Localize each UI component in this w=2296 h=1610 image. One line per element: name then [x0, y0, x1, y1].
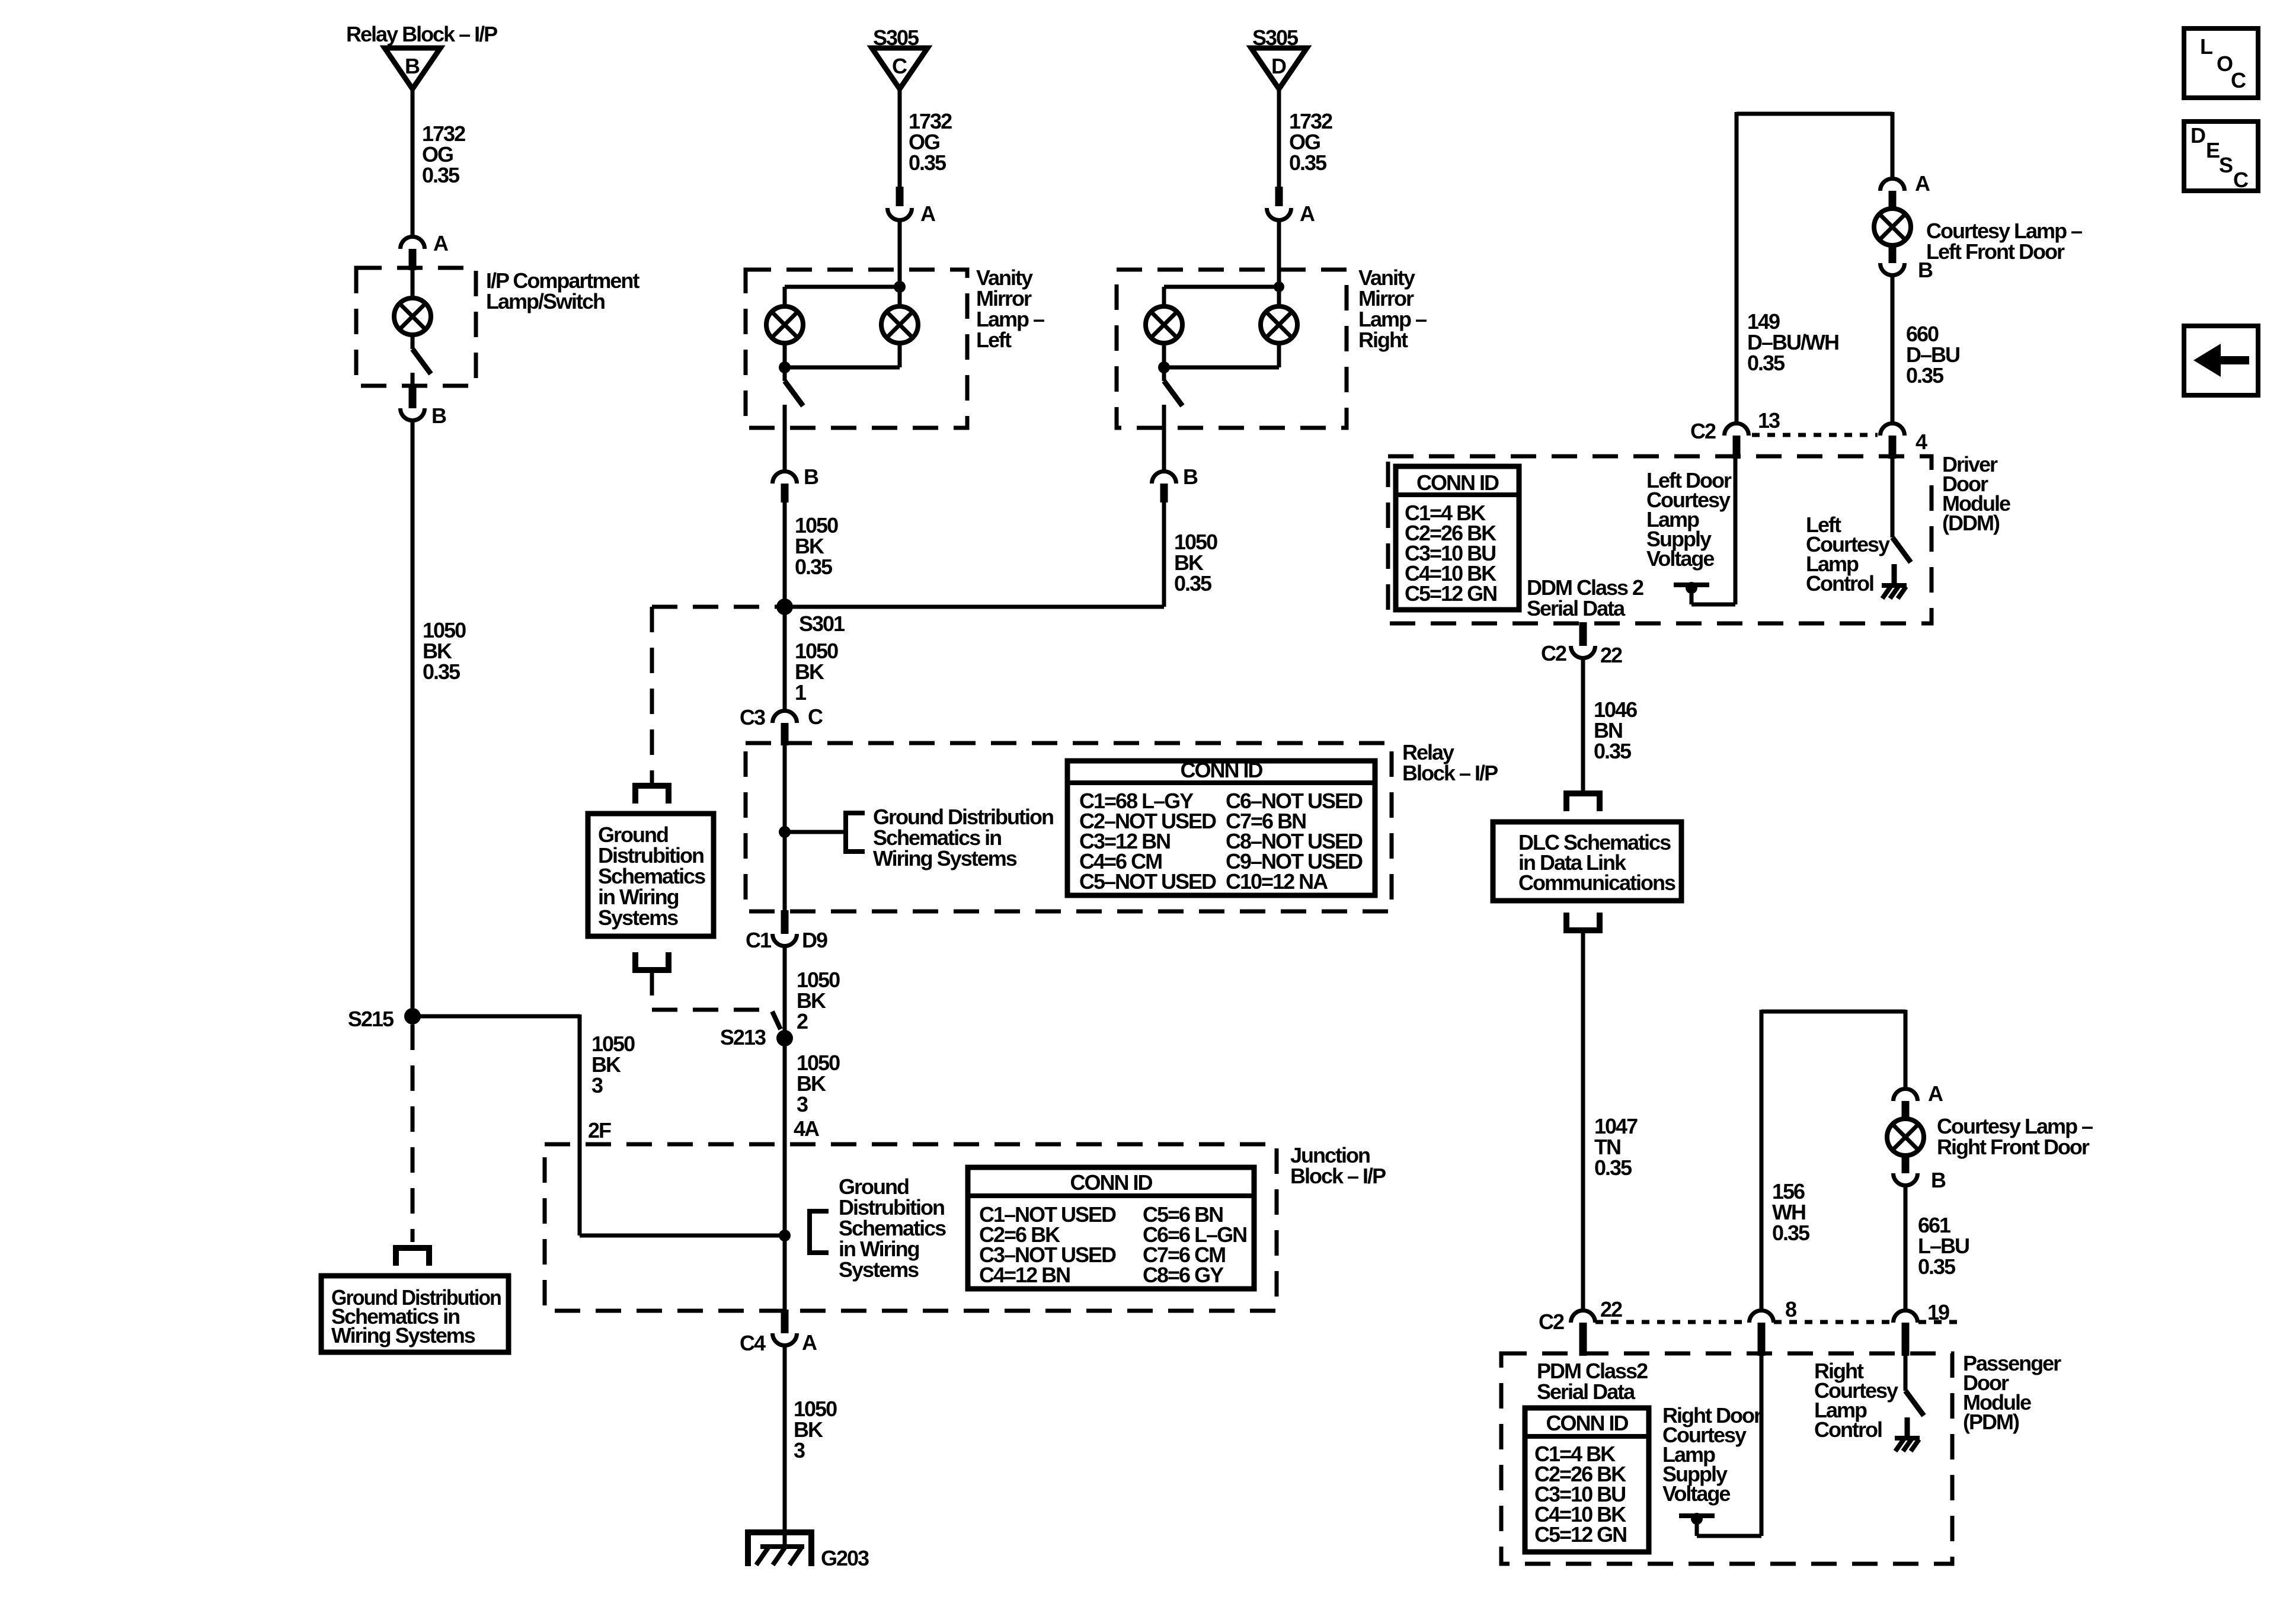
junction node in right vanity box [1274, 281, 1284, 292]
svg-text:Control: Control [1806, 571, 1873, 596]
PDM switch from pin 19 [1904, 1355, 1908, 1391]
connector B out of I/P box [409, 385, 417, 408]
svg-text:C3: C3 [740, 705, 765, 729]
wire 1050 BK 3 down to G203 [783, 1346, 787, 1548]
splice S301 [776, 598, 793, 615]
svg-text:Lamp/Switch: Lamp/Switch [486, 289, 605, 313]
svg-text:S215: S215 [348, 1007, 394, 1031]
svg-text:Left: Left [976, 328, 1012, 352]
svg-text:C2: C2 [1539, 1310, 1564, 1334]
switch node dot [779, 361, 791, 373]
svg-text:S: S [2219, 153, 2233, 177]
svg-text:S301: S301 [799, 612, 845, 636]
svg-text:Wiring Systems: Wiring Systems [331, 1323, 475, 1347]
svg-text:3: 3 [794, 1438, 805, 1462]
svg-text:(DDM): (DDM) [1942, 511, 2000, 535]
svg-text:0.35: 0.35 [422, 163, 460, 187]
ground bus junction dot in junction block [779, 1230, 791, 1241]
wire 1050 BK to S301 [783, 502, 787, 607]
svg-text:G203: G203 [821, 1546, 869, 1570]
wire lamp2 down to bottom bus (right box) [1277, 343, 1281, 367]
connector C3 pin C into Relay Block [773, 710, 797, 723]
svg-text:1: 1 [795, 680, 807, 705]
DDM pin 4 connector [1881, 423, 1905, 436]
connector A into I/P Compartment Lamp/Switch [401, 237, 425, 249]
connector staple above Ground Distribution box [396, 1248, 429, 1266]
Ground Distrubition Schematics box (middle) [588, 814, 714, 936]
I/P Compartment Lamp/Switch dashed box [356, 268, 476, 386]
splice triangle C (S305) [872, 48, 928, 89]
courtesy lamp right front door assembly [1894, 1089, 1918, 1101]
wire S301 down to C3 [783, 607, 787, 709]
svg-text:C: C [808, 705, 823, 729]
connector triangle B (Relay Block - I/P) [385, 48, 440, 89]
svg-text:Systems: Systems [598, 905, 678, 930]
svg-text:0.35: 0.35 [795, 555, 833, 579]
Vanity Mirror Lamp - Left dashed box [746, 270, 967, 428]
switch node dot (right box) [1158, 361, 1170, 373]
svg-text:2: 2 [797, 1009, 808, 1033]
svg-text:A: A [1928, 1081, 1943, 1106]
svg-text:Block – I/P: Block – I/P [1290, 1164, 1386, 1188]
Vanity Mirror Lamp - Right dashed box [1117, 270, 1347, 428]
svg-text:O: O [2217, 52, 2233, 76]
LOC legend box [2184, 28, 2258, 98]
wire pin 8 into PDM internals [1760, 1355, 1764, 1536]
supply voltage terminal (PDM) [1679, 1513, 1715, 1518]
wire 1046 BN down to DLC ref [1581, 658, 1585, 794]
dashed ground-distribution link from S215 down [411, 1025, 415, 1242]
Junction Block - I/P dashed box [545, 1144, 1277, 1311]
wire from switch through box edge [783, 405, 787, 470]
wire lamp1 to switch node [783, 343, 787, 367]
DDM switch from pin 4 [1891, 457, 1895, 537]
wire from connector A into vanity box [898, 220, 902, 287]
svg-text:D: D [1271, 54, 1286, 78]
svg-text:B: B [405, 54, 420, 78]
wire top loop (right courtesy lamp) [1761, 1010, 1905, 1014]
wire 1050 BK down to S301 bus [1162, 502, 1166, 607]
svg-text:D9: D9 [802, 928, 827, 952]
svg-text:A: A [802, 1330, 817, 1355]
wire from S215 right [411, 1014, 580, 1019]
svg-text:CONN ID: CONN ID [1416, 470, 1499, 495]
wire S213 down into Junction Block [783, 1038, 787, 1144]
svg-text:CONN ID: CONN ID [1181, 758, 1263, 782]
svg-text:E: E [2206, 138, 2220, 162]
Driver Door Module dashed box [1388, 456, 1932, 623]
wire from switch to box edge [411, 373, 415, 386]
svg-text:A: A [433, 231, 449, 255]
DDM pin 13 connector [1725, 423, 1749, 436]
svg-text:(PDM): (PDM) [1963, 1410, 2019, 1434]
svg-text:Serial Data: Serial Data [1527, 596, 1626, 620]
splice S213 [776, 1030, 793, 1046]
svg-text:C4=12 BN: C4=12 BN [979, 1263, 1070, 1287]
connector staple below Ground Distrubition box [635, 952, 669, 970]
wire 1732 OG from D down [1277, 89, 1281, 188]
svg-text:0.35: 0.35 [423, 660, 461, 684]
dashed link down to S213 [650, 970, 654, 1010]
svg-text:C5=12 GN: C5=12 GN [1405, 581, 1496, 606]
svg-text:C2: C2 [1690, 419, 1716, 443]
svg-text:C10=12 NA: C10=12 NA [1226, 869, 1328, 894]
PDM pin 22 connector [1571, 1311, 1595, 1323]
connector staple below DLC box [1566, 913, 1600, 930]
DDM internal ground [1882, 583, 1907, 588]
wire 1050 BK 2 down to S213 [783, 946, 787, 1039]
wire to left branch (right box) [1164, 285, 1279, 289]
dashed link from S301 bus to ground distribution ref [652, 605, 785, 609]
svg-text:Systems: Systems [839, 1257, 919, 1282]
ground bus junction dot in relay block [779, 826, 791, 838]
wire lamp2 branch down (right box) [1277, 287, 1281, 306]
svg-text:B: B [1931, 1168, 1946, 1192]
bracket (ground distribution ref, relay block) [846, 813, 865, 852]
svg-text:A: A [1300, 201, 1315, 226]
svg-text:CONN ID: CONN ID [1070, 1170, 1153, 1195]
svg-text:B: B [1183, 465, 1198, 489]
vanity right lamp 1 [1146, 306, 1182, 343]
switch stem [783, 367, 787, 381]
bottom bus wire in right vanity box [1164, 366, 1279, 370]
svg-text:S213: S213 [720, 1025, 766, 1049]
svg-text:C1: C1 [746, 928, 772, 952]
CONN ID table (PDM) [1525, 1408, 1649, 1552]
svg-text:C5=12 GN: C5=12 GN [1534, 1522, 1626, 1547]
splice triangle D (S305) [1251, 48, 1307, 89]
connector B below left vanity box [773, 472, 797, 484]
svg-text:A: A [920, 201, 936, 226]
wire 1050 BK from B down to S215 [411, 421, 415, 1017]
svg-text:B: B [431, 404, 446, 428]
wire from lamp to switch [411, 335, 415, 349]
Relay Block - I/P dashed box [746, 743, 1392, 911]
svg-text:Voltage: Voltage [1646, 546, 1714, 571]
svg-text:0.35: 0.35 [1289, 151, 1327, 175]
connector B below right vanity box [1152, 472, 1176, 484]
PDM internal ground [1895, 1436, 1920, 1441]
svg-text:C5–NOT USED: C5–NOT USED [1079, 869, 1216, 894]
Ground Distribution Schematics box (bottom left) [321, 1276, 509, 1352]
wire top loop (left courtesy lamp) [1737, 112, 1892, 116]
DESC legend box [2184, 121, 2258, 191]
svg-text:C2: C2 [1541, 641, 1566, 665]
wire inside junction block from 2F to ground bus [580, 1234, 785, 1238]
svg-text:8: 8 [1785, 1297, 1796, 1321]
svg-text:0.35: 0.35 [1594, 739, 1632, 763]
svg-text:C: C [2233, 168, 2249, 192]
svg-text:0.35: 0.35 [1594, 1156, 1632, 1180]
svg-text:L: L [2200, 34, 2212, 59]
svg-text:Block – I/P: Block – I/P [1402, 761, 1498, 785]
wire to left branch [785, 285, 900, 289]
Passenger Door Module dashed box [1501, 1353, 1952, 1564]
wire inside I/P box to lamp [411, 268, 415, 298]
junction node in left vanity box [894, 281, 906, 293]
svg-text:Voltage: Voltage [1662, 1481, 1730, 1506]
wire through junction block [783, 1144, 787, 1311]
wire down to vanity lamp 1 [783, 287, 787, 306]
CONN ID table (Relay Block) [1067, 761, 1375, 895]
connector staple above Ground Distrubition box (middle) [635, 786, 669, 804]
switch blade (I/P compartment switch) [412, 349, 431, 374]
pin face dotted line (DDM) [1752, 433, 1878, 437]
svg-text:Control: Control [1814, 1417, 1882, 1442]
wire from switch through box edge (right) [1162, 405, 1166, 470]
svg-text:4: 4 [1916, 430, 1927, 454]
bottom bus wire in left vanity box [785, 366, 900, 370]
wire 1047 TN down to PDM [1581, 930, 1585, 1309]
wire pin 13 into DDM internals [1734, 457, 1738, 604]
in-line connector A (right vanity feed) [1275, 187, 1283, 206]
svg-text:0.35: 0.35 [1918, 1254, 1956, 1279]
svg-text:Wiring Systems: Wiring Systems [873, 846, 1017, 870]
wire down to lamp 1 (right box) [1162, 287, 1166, 306]
svg-text:22: 22 [1600, 1297, 1622, 1321]
svg-text:C: C [2231, 68, 2246, 92]
ground G203 symbol [748, 1532, 811, 1566]
svg-text:2F: 2F [588, 1118, 611, 1142]
wire lamp1 to switch node (right box) [1162, 343, 1166, 367]
svg-text:0.35: 0.35 [1772, 1221, 1810, 1245]
back-arrow legend box [2184, 326, 2258, 395]
in-line connector A (left vanity feed) [896, 187, 904, 206]
svg-text:4A: 4A [794, 1116, 820, 1141]
svg-text:Right Front Door: Right Front Door [1937, 1135, 2090, 1159]
supply voltage terminal (DDM) [1674, 582, 1709, 587]
wire 1732 OG from triangle B down to connector A [411, 89, 415, 235]
vanity right lamp 2 [1261, 306, 1297, 343]
svg-text:0.35: 0.35 [1174, 571, 1212, 596]
svg-text:A: A [1915, 171, 1930, 196]
svg-text:0.35: 0.35 [1747, 351, 1785, 375]
svg-text:19: 19 [1927, 1300, 1949, 1324]
svg-text:C4: C4 [740, 1331, 766, 1355]
svg-text:CONN ID: CONN ID [1546, 1411, 1629, 1435]
wire lamp2 branch down [898, 287, 902, 306]
CONN ID table (Junction Block) [968, 1167, 1254, 1289]
bracket (ground distribution ref, junction block) [810, 1211, 829, 1253]
svg-text:22: 22 [1600, 643, 1622, 667]
svg-text:Serial Data: Serial Data [1537, 1379, 1636, 1404]
svg-text:0.35: 0.35 [1906, 363, 1944, 388]
lamp symbol (I/P compartment lamp) [394, 298, 431, 335]
svg-text:Relay Block – I/P: Relay Block – I/P [346, 22, 497, 46]
wire lamp2 down to bottom bus [898, 343, 902, 367]
connector C1 pin D9 out of Relay Block [781, 910, 789, 934]
svg-text:13: 13 [1758, 408, 1780, 433]
svg-text:3: 3 [591, 1073, 603, 1097]
vanity left lamp 2 [881, 306, 918, 343]
DLC Schematics box [1493, 822, 1681, 901]
svg-text:3: 3 [797, 1092, 808, 1116]
wire to ground distribution bracket [785, 830, 846, 834]
connector C4 pin A out of Junction Block [781, 1310, 789, 1333]
svg-text:D: D [2191, 123, 2205, 148]
vanity left lamp 1 [766, 306, 803, 343]
svg-text:B: B [804, 465, 818, 489]
courtesy lamp left front door assembly [1881, 179, 1905, 191]
wire 660 D-BU from lamp to DDM pin 4 [1891, 276, 1895, 422]
svg-text:Left Front Door: Left Front Door [1926, 239, 2065, 264]
PDM pin 19 connector [1894, 1311, 1918, 1323]
svg-text:Communications: Communications [1518, 870, 1675, 895]
splice S215 [404, 1008, 421, 1025]
pin face dotted line (PDM) [1595, 1320, 1748, 1324]
PDM pin 8 connector [1750, 1311, 1774, 1323]
svg-text:0.35: 0.35 [909, 151, 946, 175]
svg-text:C8=6 GY: C8=6 GY [1143, 1263, 1224, 1287]
connector staple above DLC box [1566, 793, 1600, 811]
svg-text:C: C [892, 54, 907, 78]
wire down to Junction Block pin 2F [578, 1014, 582, 1235]
switch blade (right vanity) [1164, 381, 1182, 406]
wire through relay block [783, 743, 787, 911]
wire S301 horizontal bus [785, 605, 1164, 609]
svg-text:Right: Right [1358, 328, 1408, 352]
connector C2 pin 22 below DDM [1579, 622, 1587, 646]
wire 661 L-BU from lamp to PDM pin 19 [1904, 1186, 1908, 1310]
switch blade (left vanity) [785, 381, 803, 406]
CONN ID table (DDM) [1396, 466, 1519, 610]
wire 1732 OG from C down [898, 89, 902, 188]
wire from connector A into right vanity box [1277, 220, 1281, 287]
switch stem (right box) [1162, 367, 1166, 381]
